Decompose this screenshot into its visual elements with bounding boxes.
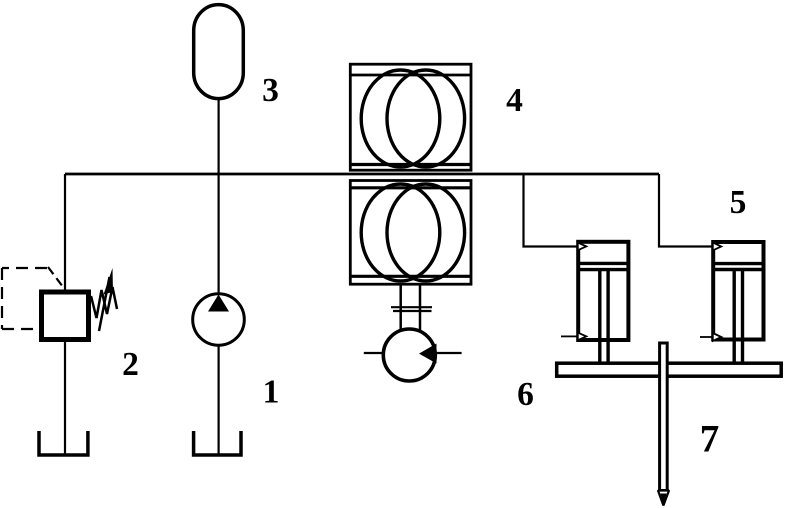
motor arrow xyxy=(419,344,437,364)
cylinder 5a bottom port stub xyxy=(561,335,577,337)
svg-text:3: 3 xyxy=(262,72,279,109)
wire: bus down to relief valve xyxy=(64,174,66,290)
tank under relief valve xyxy=(39,431,88,455)
wire: main pressure bus xyxy=(65,173,659,176)
relief valve spring xyxy=(91,287,117,318)
unit 4 upper left winding xyxy=(361,70,440,167)
wire: accumulator to pump xyxy=(218,100,220,295)
tool tip xyxy=(658,491,669,506)
unit 4 upper chamber box xyxy=(350,64,471,170)
beam 6 xyxy=(557,363,782,376)
wire: pump to tank xyxy=(218,345,220,454)
svg-text:2: 2 xyxy=(122,346,139,383)
unit 4 lower chamber box xyxy=(350,181,471,285)
cylinder 5a body xyxy=(578,242,628,340)
cylinder 5b top port arrow xyxy=(713,243,722,251)
relief valve pilot arrow (dashed diagonal) xyxy=(48,267,65,289)
motor right port stub xyxy=(437,352,462,354)
accumulator 3 xyxy=(194,5,244,99)
unit 4 upper right winding xyxy=(387,70,465,167)
wire: relief valve to tank xyxy=(64,340,66,455)
coupling ticks xyxy=(391,307,432,311)
motor left port stub xyxy=(364,352,382,354)
tank under pump xyxy=(194,431,241,455)
svg-text:1: 1 xyxy=(263,374,280,411)
cylinder 5b body xyxy=(713,242,763,340)
relief valve 2 body xyxy=(42,292,89,340)
cylinder 5b bottom port stub xyxy=(700,336,712,338)
wire: branch to right cylinder top port xyxy=(659,174,712,247)
shaft from unit 4 to motor xyxy=(401,284,420,330)
unit 4 lower cap lines xyxy=(350,186,471,189)
svg-text:7: 7 xyxy=(700,418,720,461)
relief valve adjustment arrow xyxy=(99,277,110,331)
cylinder 5a bottom port arrow xyxy=(578,333,587,341)
unit 4 upper cap lines xyxy=(350,74,471,77)
svg-text:5: 5 xyxy=(730,184,747,221)
svg-text:6: 6 xyxy=(517,376,534,413)
cylinder 5b bottom port arrow xyxy=(713,333,722,341)
cylinder 5a top port arrow xyxy=(578,243,587,251)
cylinder 5b piston xyxy=(713,264,764,270)
svg-text:4: 4 xyxy=(506,82,523,119)
cylinder 5a piston xyxy=(578,263,629,269)
wire: branch to left cylinder top port xyxy=(524,174,578,247)
cylinder 5b rod xyxy=(734,271,742,362)
motor xyxy=(383,329,435,381)
relief valve pilot line (dashed) xyxy=(2,268,47,329)
unit 4 lower left winding xyxy=(361,184,440,281)
cylinder 5a rod xyxy=(600,271,608,362)
unit 4 lower right winding xyxy=(387,184,465,281)
pump 1 xyxy=(193,294,245,346)
ram tool 7 xyxy=(660,343,668,491)
